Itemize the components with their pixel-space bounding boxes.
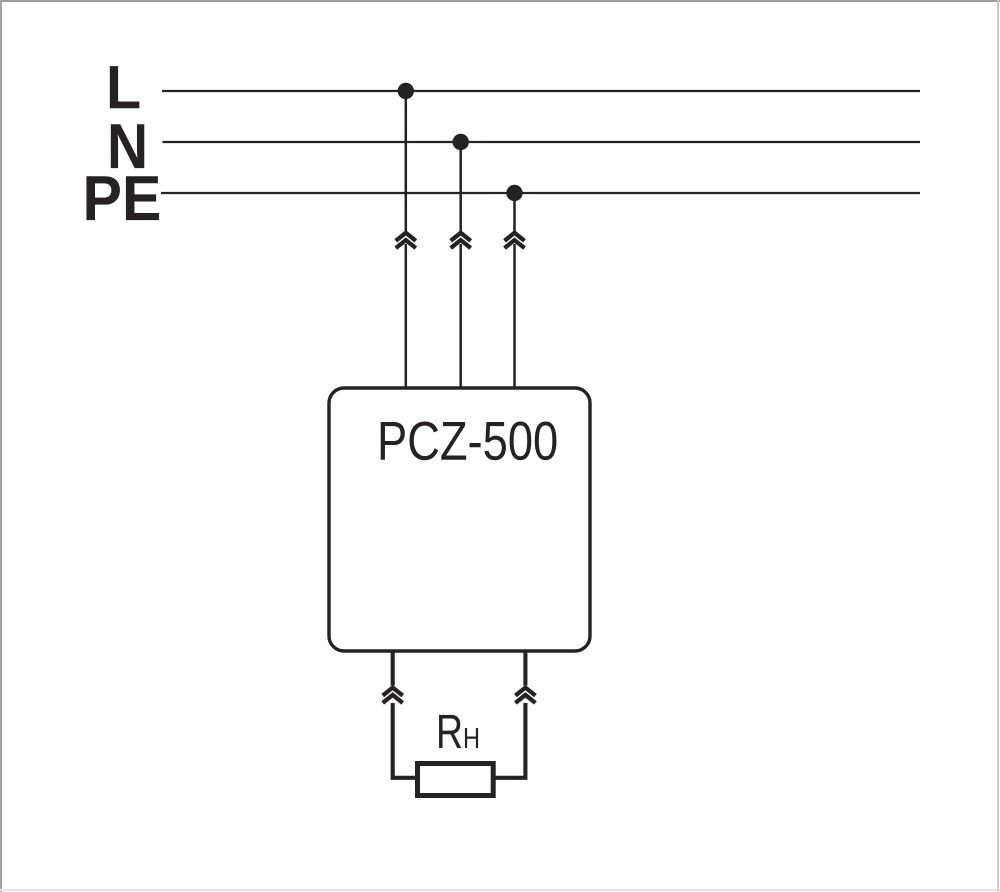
wire: output right lower segment with corner to resistor	[494, 703, 525, 778]
border frame top	[0, 0, 1000, 2]
border frame left	[0, 0, 2, 892]
node PE label	[86, 176, 159, 220]
wire: PE drop upper segment	[513, 193, 516, 231]
wire: L drop lower segment	[405, 244, 408, 388]
node N label	[111, 124, 144, 168]
cable mark chevrons on N drop	[451, 233, 471, 248]
cable mark chevrons on output left	[383, 688, 403, 703]
wire: output left lower segment with corner to resistor	[393, 703, 416, 778]
wire: line L	[162, 90, 920, 92]
wire: line N	[163, 141, 921, 143]
junction dot on PE	[506, 185, 522, 201]
wire: PE drop lower segment	[513, 244, 516, 388]
device label PCZ-500	[381, 421, 557, 460]
border frame bottom	[0, 889, 1000, 891]
wire: output right upper segment	[523, 651, 527, 686]
border frame right	[997, 0, 999, 892]
junction dot on N	[453, 134, 469, 150]
wire: line PE	[161, 192, 920, 194]
device box PCZ-500	[329, 388, 590, 651]
resistor label H subscript	[465, 728, 478, 748]
wire: L drop upper segment	[405, 91, 408, 231]
junction dot on L	[398, 83, 414, 99]
wire: N drop lower segment	[459, 244, 462, 388]
cable mark chevrons on PE drop	[505, 233, 525, 248]
resistor label R	[439, 715, 461, 748]
wire: N drop upper segment	[459, 142, 462, 231]
cable mark chevrons on L drop	[396, 233, 416, 248]
node L label	[110, 66, 139, 108]
wire: output left upper segment	[391, 651, 395, 686]
cable mark chevrons on output right	[515, 688, 535, 703]
resistor RH body	[418, 764, 494, 796]
